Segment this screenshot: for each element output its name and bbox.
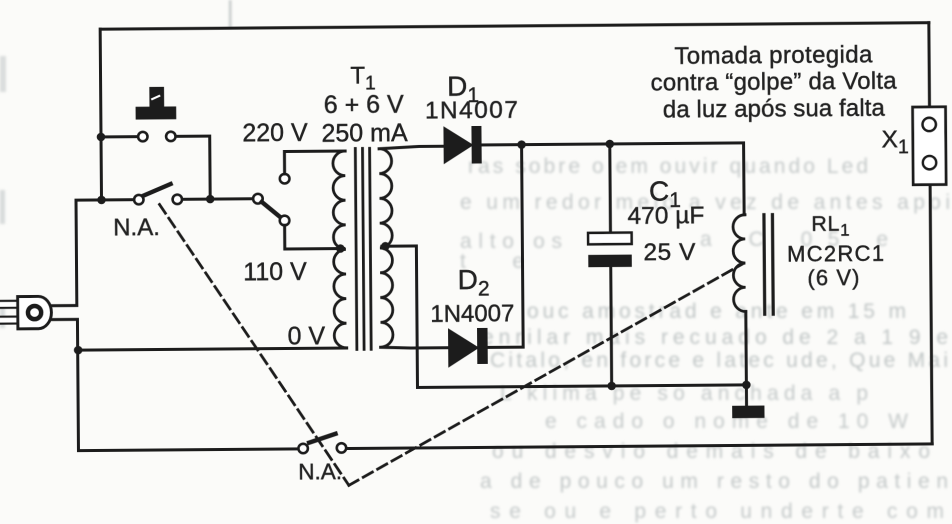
- svg-text:1N4007: 1N4007: [425, 97, 518, 125]
- svg-text:220 V: 220 V: [242, 119, 308, 148]
- svg-text:se ou e perto underte com: se ou e perto underte com: [490, 500, 944, 523]
- svg-text:a de pouco um resto do patien: a de pouco um resto do patien: [480, 470, 948, 493]
- svg-text:N.A.: N.A.: [113, 214, 160, 241]
- svg-text:N.A.: N.A.: [298, 459, 342, 484]
- svg-text:25 V: 25 V: [643, 239, 696, 266]
- svg-text:110 V: 110 V: [243, 258, 307, 287]
- svg-text:470 µF: 470 µF: [627, 202, 704, 230]
- svg-text:e cado o nome de 10 W: e cado o nome de 10 W: [545, 410, 908, 433]
- svg-text:alto os: alto os: [460, 230, 562, 253]
- svg-text:MC2RC1: MC2RC1: [787, 241, 884, 267]
- svg-text:X1: X1: [881, 126, 908, 158]
- svg-text:1N4007: 1N4007: [430, 300, 514, 328]
- svg-text:Tomada protegida: Tomada protegida: [674, 41, 873, 70]
- svg-text:(6 V): (6 V): [807, 265, 859, 290]
- svg-text:ras sobre o em ouvir quando Le: ras sobre o em ouvir quando Led: [468, 155, 868, 178]
- svg-text:contra “golpe” da Volta: contra “golpe” da Volta: [650, 67, 897, 96]
- svg-text:e um redor meio a vez de antes: e um redor meio a vez de antes apoi: [460, 191, 950, 214]
- svg-text:da luz após sua falta: da luz após sua falta: [663, 95, 886, 124]
- svg-text:6 + 6 V: 6 + 6 V: [324, 90, 404, 119]
- svg-text:D2: D2: [458, 264, 490, 301]
- svg-text:250 mA: 250 mA: [321, 119, 408, 148]
- svg-text:T1: T1: [350, 62, 376, 94]
- svg-text:ouc amostrad e ante em 15 m: ouc amostrad e ante em 15 m: [527, 300, 906, 323]
- svg-text:0 V: 0 V: [288, 322, 326, 350]
- svg-text:RL1: RL1: [811, 212, 850, 240]
- svg-text:enrilar mais recuado de 2 a 1: enrilar mais recuado de 2 a 1 9 e: [482, 326, 948, 349]
